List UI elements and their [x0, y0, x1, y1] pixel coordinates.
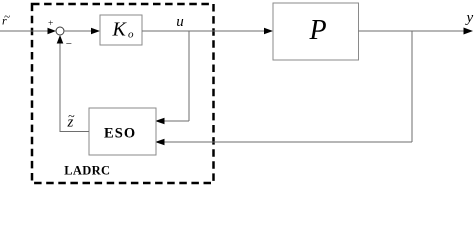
svg-text:+: + [48, 19, 53, 29]
wire P to output y [359, 30, 465, 32]
svg-text:~: ~ [4, 11, 10, 23]
block P [273, 3, 359, 60]
wire y feedback into ESO [163, 141, 412, 143]
wire summing junction to Ko [64, 30, 92, 32]
svg-text:u: u [176, 14, 184, 30]
svg-text:K: K [112, 19, 128, 41]
svg-text:ESO: ESO [104, 126, 136, 142]
wire ESO output up to summing junction [59, 43, 61, 132]
svg-text:P: P [309, 15, 327, 46]
wire u feedback into ESO [163, 120, 189, 122]
wire input r to summing junction [0, 30, 49, 32]
svg-text:−: − [66, 38, 72, 50]
block ESO [89, 108, 156, 155]
wire u tap down [188, 31, 190, 121]
wire Ko to P [142, 30, 265, 32]
block Ko [100, 15, 142, 45]
svg-text:y: y [465, 10, 474, 26]
svg-text:o: o [128, 29, 134, 41]
wire y tap down [411, 31, 413, 142]
svg-text:LADRC: LADRC [64, 164, 110, 178]
svg-text:~: ~ [68, 109, 75, 123]
summing junction [56, 27, 64, 35]
dashed box LADRC [32, 4, 214, 183]
wire ESO output left [60, 131, 89, 133]
